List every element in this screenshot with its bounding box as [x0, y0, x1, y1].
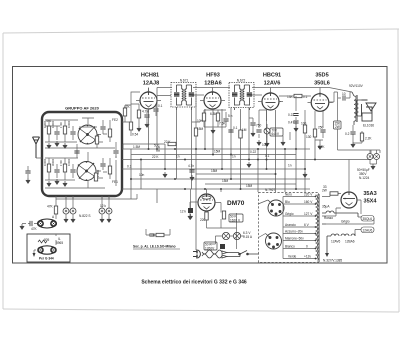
boxed label 35QL6 — [361, 216, 374, 222]
heater coil hc1 — [322, 211, 358, 217]
V3 ground c — [281, 140, 285, 146]
pilot lamp L1 — [222, 232, 229, 239]
tube V1 HCH81 — [140, 91, 157, 109]
V4 wires — [311, 88, 334, 145]
svg-text:N.672: N.672 — [237, 79, 246, 83]
svg-text:Soc. p. Az. LE.LS.SO-Milano: Soc. p. Az. LE.LS.SO-Milano — [133, 245, 176, 249]
svg-text:10000: 10000 — [43, 158, 47, 166]
V2 res Ra — [202, 113, 205, 121]
V1 resistor R3 — [137, 110, 140, 118]
ground elec — [371, 164, 375, 170]
electrolytic double 50+50 — [367, 154, 373, 160]
svg-text:35μA: 35μA — [322, 205, 330, 209]
wires near switch — [146, 229, 170, 235]
DM70 ground — [188, 214, 192, 220]
tuner cap C2 — [70, 132, 75, 134]
diode dark — [220, 244, 225, 249]
svg-text:10M: 10M — [262, 143, 269, 147]
tuner cap C4 — [70, 170, 75, 172]
schematic border frame — [13, 67, 388, 264]
wire mid buses — [122, 149, 345, 189]
svg-text:1620 V: 1620 V — [230, 218, 241, 222]
electrolytic pair N822 a — [63, 208, 69, 214]
loopstick wires — [22, 196, 56, 224]
tuner inner wires extra — [45, 118, 116, 188]
grounds on buses — [163, 172, 167, 178]
socket P1 — [268, 200, 284, 216]
svg-text:640V: 640V — [272, 132, 280, 136]
wire vertical drops — [123, 96, 315, 251]
arrow heater end — [325, 253, 329, 257]
lamp wires — [210, 236, 244, 244]
tuner res R1 — [108, 129, 111, 137]
loopstick cap — [30, 221, 32, 226]
tuner tiny value labels — [43, 120, 100, 177]
small cap near switch — [149, 234, 154, 236]
res squiggle in box — [38, 240, 47, 243]
mains plug — [193, 250, 200, 259]
cap V4 — [320, 130, 325, 132]
svg-text:1n: 1n — [288, 164, 292, 168]
rotary switch S2 — [77, 162, 96, 181]
electrolytic leads — [370, 150, 377, 164]
wires under IFT1 — [192, 95, 200, 149]
svg-text:15M: 15M — [222, 179, 229, 183]
svg-text:7.5K: 7.5K — [219, 122, 226, 126]
twisted mains lead — [202, 250, 222, 258]
svg-text:8965: 8965 — [56, 241, 63, 245]
electrolytic pair b — [99, 208, 105, 214]
svg-text:GRUPPO AF 2620: GRUPPO AF 2620 — [65, 106, 99, 111]
socket P2 — [266, 233, 282, 249]
svg-text:5 n: 5 n — [228, 114, 233, 118]
svg-text:Marrone–50v: Marrone–50v — [285, 237, 304, 241]
svg-text:Azzurro–20v: Azzurro–20v — [285, 230, 303, 234]
svg-text:Blu: Blu — [285, 200, 290, 204]
svg-text:Verde: Verde — [288, 255, 297, 259]
res 50K vert — [222, 211, 225, 219]
svg-text:10000: 10000 — [51, 120, 55, 128]
heater link wires — [322, 217, 374, 234]
svg-text:Nero: Nero — [285, 193, 292, 197]
tuner coil L2 — [63, 126, 66, 134]
svg-text:10K: 10K — [197, 119, 204, 123]
right side wires — [334, 92, 380, 192]
svg-text:22 K: 22 K — [152, 155, 159, 159]
tuner extra cap C8 — [74, 151, 79, 153]
mains transformer winding — [316, 194, 320, 262]
heater coil hc2 — [327, 234, 355, 254]
tuner trimmer C7 — [113, 151, 118, 153]
rectifier feed wires — [322, 194, 361, 225]
wire antenna to tuner — [36, 157, 42, 159]
svg-text:FE1: FE1 — [112, 180, 118, 184]
junction dots — [148, 148, 307, 190]
svg-text:0.22: 0.22 — [250, 150, 256, 154]
svg-text:15M: 15M — [197, 127, 204, 131]
V3 ground b — [265, 141, 269, 147]
arrow mains b — [222, 255, 227, 258]
loopstick F in box — [38, 246, 56, 254]
wire trimmer — [27, 166, 29, 178]
boxed res 50K 1620V — [229, 214, 243, 222]
svg-text:0.1: 0.1 — [127, 165, 132, 169]
label 70K 640V box — [270, 128, 283, 136]
svg-text:0.1: 0.1 — [303, 95, 308, 99]
arrow in box — [33, 253, 36, 257]
V1 area wires — [122, 92, 147, 136]
ground antenna trimmer — [26, 178, 30, 184]
svg-text:127 V: 127 V — [304, 212, 313, 216]
svg-text:0.15 A: 0.15 A — [243, 235, 253, 239]
V3 ground a — [257, 140, 261, 146]
svg-text:1M: 1M — [242, 128, 247, 132]
cap under IFT2 left — [228, 130, 233, 132]
RF tuner box (GRUPPO AF) — [42, 112, 122, 196]
svg-text:EL1036: EL1036 — [363, 124, 374, 128]
svg-text:4.7 n: 4.7 n — [142, 110, 149, 114]
V1 grid cap — [144, 115, 149, 117]
svg-text:Bianco: Bianco — [285, 245, 295, 249]
tuner extra res R5 — [95, 136, 98, 144]
svg-text:1700: 1700 — [59, 122, 63, 128]
V3 pot volume — [264, 124, 270, 138]
svg-text:160 V: 160 V — [304, 200, 313, 204]
output transformer T3 — [352, 92, 362, 125]
tube V4 35D5 — [311, 93, 329, 112]
tuner cap C1 — [54, 132, 59, 134]
res 15K right — [334, 121, 342, 129]
svg-text:12AV6: 12AV6 — [264, 81, 281, 87]
tuner cap C3 — [54, 170, 59, 172]
svg-text:350L6: 350L6 — [314, 81, 330, 87]
res 12k drop — [190, 189, 192, 208]
V2 res Rb — [216, 113, 219, 121]
tuner spoke dots S1 — [79, 125, 96, 145]
tuner cap C6 — [100, 164, 105, 166]
svg-text:0: 0 — [306, 245, 308, 249]
ground v2r — [251, 131, 255, 137]
tuner res R2 — [108, 166, 111, 174]
svg-text:2.7K: 2.7K — [318, 145, 325, 149]
svg-text:HBC91: HBC91 — [263, 73, 281, 79]
cap under V2 right — [250, 123, 255, 125]
svg-text:Rosso: Rosso — [324, 216, 333, 220]
svg-text:1n: 1n — [232, 155, 236, 159]
svg-text:35D5: 35D5 — [315, 73, 328, 79]
svg-text:Grigio: Grigio — [341, 220, 350, 224]
svg-text:10: 10 — [342, 92, 346, 96]
V3-V4 coupling wires — [259, 96, 311, 141]
transformer tap rows — [258, 197, 316, 259]
extra junction dots — [130, 148, 316, 190]
svg-text:0.1: 0.1 — [233, 126, 238, 130]
boxed res 50K 1260V — [204, 242, 217, 250]
V1 resistor R4 — [129, 122, 132, 130]
boxed label 12AU6 — [361, 227, 374, 233]
tuner coil L4 — [63, 164, 66, 172]
svg-text:500: 500 — [154, 144, 160, 148]
resistor 22K — [168, 142, 176, 145]
grid coupling wires — [157, 94, 262, 97]
elec pair leads b — [102, 196, 109, 217]
res 13K — [294, 94, 302, 97]
svg-text:+12v: +12v — [304, 255, 311, 259]
V3 ground d — [294, 126, 298, 132]
Per G344 box — [27, 234, 70, 262]
svg-text:2.2K: 2.2K — [365, 137, 372, 141]
svg-text:12AJ8: 12AJ8 — [143, 81, 159, 87]
svg-text:Per G 344: Per G 344 — [39, 257, 54, 261]
svg-text:1.5M: 1.5M — [133, 145, 140, 149]
svg-text:DM70: DM70 — [227, 200, 245, 207]
svg-text:2W: 2W — [322, 189, 327, 193]
svg-text:220 V: 220 V — [304, 193, 313, 197]
svg-text:Schema elettrico dei ricevitor: Schema elettrico dei ricevitori G 332 e … — [141, 280, 247, 286]
svg-text:10000: 10000 — [67, 120, 71, 128]
svg-text:0.54: 0.54 — [132, 133, 138, 137]
tube anode stubs — [149, 88, 321, 94]
speaker cone — [362, 100, 377, 121]
V2 area wires — [204, 110, 226, 127]
svg-text:130: 130 — [306, 135, 312, 139]
ground loopstick — [20, 224, 24, 230]
grounds elec a — [64, 217, 68, 223]
cap C500 series in AVC bus — [157, 146, 159, 151]
V2 ground — [211, 128, 215, 134]
V2 cap Ca — [223, 119, 228, 121]
ground right a — [351, 142, 355, 148]
res 250 — [313, 129, 316, 137]
tube V5 DM70 — [198, 194, 215, 211]
svg-text:12AV6: 12AV6 — [331, 240, 341, 244]
trimmer cap S — [25, 171, 30, 173]
svg-text:10n: 10n — [139, 173, 145, 177]
svg-text:30000: 30000 — [51, 158, 55, 166]
svg-text:0.1: 0.1 — [158, 104, 163, 108]
svg-text:HCH81: HCH81 — [141, 73, 159, 79]
svg-text:35QL6: 35QL6 — [363, 217, 373, 221]
tuner coil L3 — [47, 164, 50, 172]
tuner spoke dots S2 — [78, 161, 95, 181]
switch SW — [227, 251, 259, 257]
svg-text:HF93: HF93 — [206, 73, 220, 79]
antenna — [33, 137, 40, 158]
wire v1 left — [125, 105, 156, 122]
arrow mains a — [222, 251, 227, 254]
svg-text:N.1224: N.1224 — [359, 176, 370, 180]
V4 ground — [318, 144, 322, 150]
wire B+ top bus — [149, 88, 353, 96]
small res near switch — [156, 233, 164, 236]
res under IFT2 right — [239, 130, 242, 138]
tuner coil L1 — [47, 126, 50, 134]
res 2.2K right — [360, 133, 363, 141]
svg-text:FE2: FE2 — [112, 118, 118, 122]
V1 ground g1 — [145, 122, 149, 128]
svg-text:35A3: 35A3 — [363, 191, 376, 197]
V1 extra parts: res 47K left — [123, 108, 126, 116]
svg-text:Grigio: Grigio — [285, 212, 294, 216]
cap 0.2 right — [350, 132, 355, 134]
ground 12k — [188, 214, 192, 220]
svg-text:13K: 13K — [287, 95, 294, 99]
svg-text:35X4: 35X4 — [363, 199, 377, 205]
svg-text:12 k: 12 k — [100, 204, 106, 208]
elec pair leads a — [66, 196, 73, 217]
svg-text:0.2: 0.2 — [345, 132, 350, 136]
cap mid bus — [189, 170, 194, 172]
DM70 wires — [190, 189, 237, 249]
grounds elec b — [100, 217, 104, 223]
svg-text:12AU6: 12AU6 — [363, 228, 373, 232]
winding tap dots — [315, 196, 317, 260]
svg-text:47K: 47K — [31, 227, 38, 231]
wires v2 right — [249, 118, 253, 131]
pilot lamp L2 — [233, 232, 240, 239]
svg-text:15M: 15M — [214, 150, 221, 154]
tuner extra res R6 — [94, 173, 97, 181]
svg-text:12BA6: 12BA6 — [345, 240, 355, 244]
wire filter link y199 — [56, 189, 137, 199]
tuner wires — [45, 120, 116, 180]
svg-text:4.7n: 4.7n — [188, 164, 194, 168]
tuner cap C5 — [100, 127, 105, 129]
svg-text:1700: 1700 — [59, 160, 63, 166]
res under IFT1 — [194, 128, 197, 136]
svg-text:1n: 1n — [176, 155, 180, 159]
tube V2 HF93 — [204, 91, 221, 109]
svg-text:92V/110V: 92V/110V — [349, 84, 364, 88]
V1 ground g2 — [137, 126, 141, 132]
svg-text:12 k: 12 k — [180, 210, 186, 214]
cap 0.22 — [293, 114, 298, 116]
svg-text:N.671: N.671 — [180, 79, 189, 83]
svg-text:Arancio: Arancio — [285, 223, 296, 227]
tuner grounds — [47, 143, 51, 149]
res 33 — [330, 192, 338, 195]
box wires — [34, 234, 56, 253]
rotary switch S1 — [78, 125, 97, 144]
svg-text:10000: 10000 — [67, 158, 71, 166]
svg-text:N.822 S: N.822 S — [79, 214, 91, 218]
tube side lead stubs — [136, 101, 333, 103]
wires cap v4 — [338, 92, 352, 98]
cap 0.47 — [293, 121, 298, 123]
svg-text:15M: 15M — [246, 184, 253, 188]
cap between V1 IFT — [153, 109, 158, 111]
svg-text:47K: 47K — [47, 205, 54, 209]
tube V6 rectifier 35A3 — [341, 192, 357, 208]
tube V3 HBC91 — [262, 92, 279, 110]
DM70 res 220 — [205, 212, 208, 220]
cap before V4 — [343, 95, 345, 100]
svg-text:2W: 2W — [335, 125, 340, 129]
svg-text:N.7927: N.7927 — [265, 188, 276, 192]
V3 cap Cd1 — [256, 130, 261, 132]
svg-text:15M: 15M — [211, 169, 218, 173]
svg-text:0.1: 0.1 — [265, 154, 270, 158]
res 100 — [303, 125, 306, 133]
svg-text:N.327/V.1385: N.327/V.1385 — [323, 259, 342, 263]
svg-text:10000: 10000 — [43, 120, 47, 128]
svg-text:12BA6: 12BA6 — [204, 81, 221, 87]
